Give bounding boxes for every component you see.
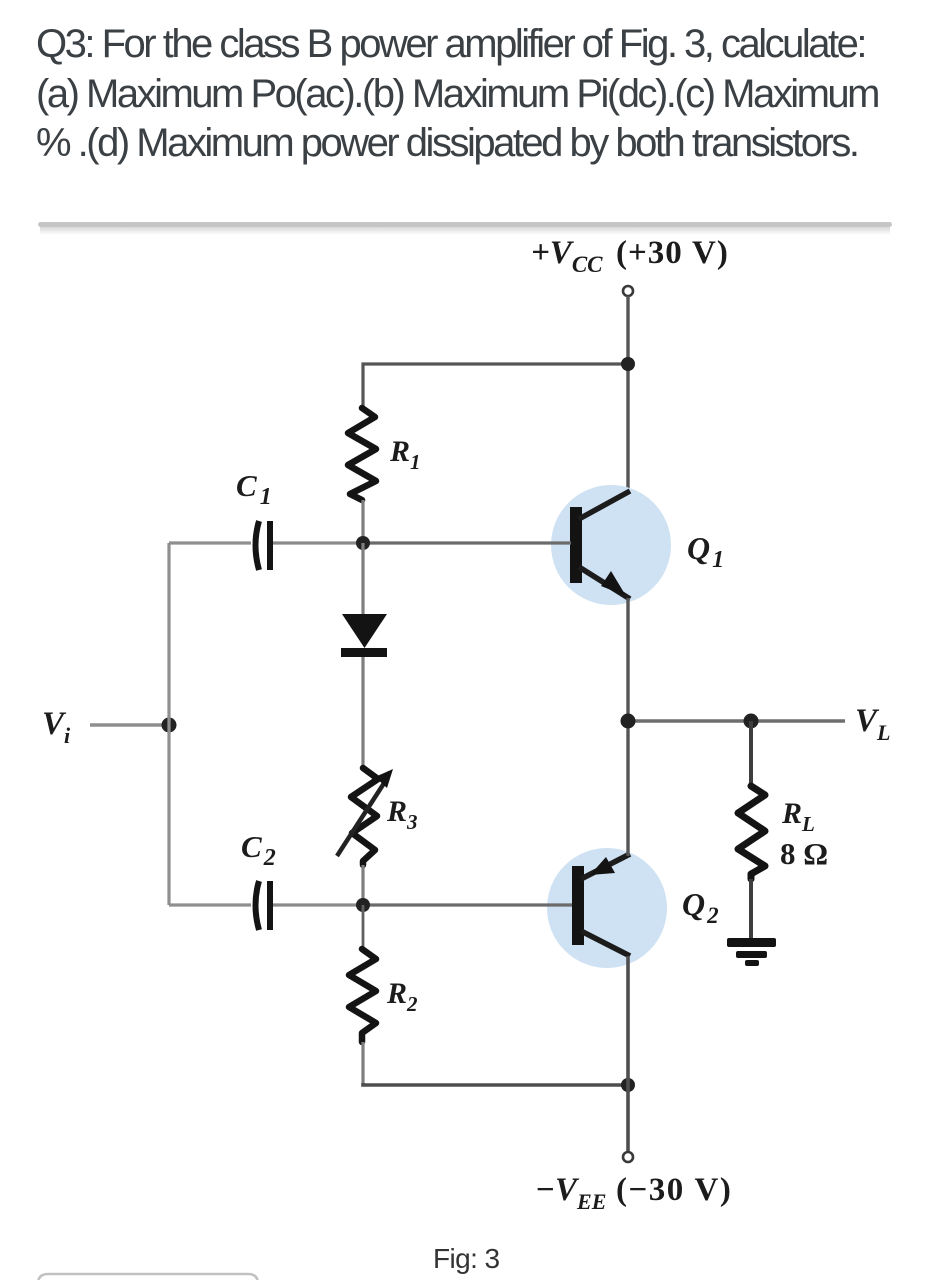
wire output node to Q2 emitter bbox=[626, 721, 629, 856]
svg-text:(+30 V): (+30 V) bbox=[616, 235, 729, 271]
wire C2 right to node bbox=[273, 903, 363, 906]
wire R2 to bottom rail bbox=[361, 1042, 364, 1083]
wire left loop vertical bbox=[167, 543, 170, 905]
wire R1 to base node bbox=[361, 500, 364, 543]
wire top rail bbox=[363, 364, 628, 408]
wire Q2 base bbox=[363, 903, 572, 906]
junction bottom rail bbox=[621, 1078, 635, 1092]
resistor RL 8ohm bbox=[738, 786, 765, 879]
wire C2 left bbox=[169, 903, 251, 906]
figure caption bbox=[433, 1243, 499, 1275]
wire Q1 base bbox=[363, 541, 571, 544]
wire node2 to R2 bbox=[362, 905, 365, 951]
svg-text:R1: R1 bbox=[389, 435, 421, 474]
svg-text:C1: C1 bbox=[236, 468, 272, 510]
svg-text:(−30 V): (−30 V) bbox=[616, 1172, 732, 1208]
svg-text:Q2: Q2 bbox=[682, 886, 719, 928]
wire bottom rail bbox=[363, 1083, 628, 1085]
wire Vcc vertical to Q1 collector bbox=[626, 296, 629, 492]
junction Vi / left loop bbox=[162, 718, 177, 733]
wire node to diode bbox=[361, 543, 364, 616]
resistor R1 bbox=[348, 408, 376, 500]
bottom card edge bbox=[38, 1274, 258, 1280]
wire C1 right to node bbox=[273, 541, 363, 544]
svg-text:8 Ω: 8 Ω bbox=[780, 836, 828, 871]
svg-text:Vi: Vi bbox=[42, 706, 71, 748]
node base1 junction bbox=[356, 536, 370, 550]
question text bbox=[36, 20, 878, 169]
transistor Q2 bbox=[547, 848, 667, 968]
resistor R2 bbox=[349, 949, 376, 1042]
junction RL tap bbox=[744, 714, 759, 729]
wire RL bottom bbox=[749, 879, 753, 941]
transistor Q1 bbox=[551, 485, 671, 605]
-Vee terminal bbox=[623, 1152, 633, 1162]
capacitor C2 bbox=[256, 881, 271, 930]
svg-text:C2: C2 bbox=[241, 829, 276, 871]
resistor R3 (variable) bbox=[337, 768, 393, 865]
wire output rail bbox=[628, 719, 845, 722]
junction top rail / Vcc bbox=[621, 357, 635, 371]
svg-text:VL: VL bbox=[855, 703, 890, 745]
svg-text:RL: RL bbox=[781, 797, 815, 836]
wire diode to R3 bbox=[361, 657, 364, 770]
wire RL top bbox=[749, 721, 753, 786]
wire Vi input bbox=[90, 723, 169, 727]
wire C1 left bbox=[169, 541, 251, 544]
junction output node bbox=[621, 714, 636, 729]
node base2 junction bbox=[356, 898, 370, 912]
Vcc terminal bbox=[623, 286, 633, 296]
separator bar bbox=[38, 222, 892, 235]
wire Q2 collector to -Vee terminal bbox=[626, 956, 630, 1151]
capacitor C1 bbox=[256, 521, 271, 570]
svg-text:Q1: Q1 bbox=[687, 530, 724, 573]
svg-text:+VCC: +VCC bbox=[531, 235, 603, 277]
diode D1 bbox=[341, 614, 387, 657]
wire Q1 emitter to output node bbox=[626, 598, 629, 721]
svg-text:−VEE: −VEE bbox=[535, 1172, 606, 1214]
label +Vcc (+30 V) bbox=[531, 235, 729, 277]
svg-text:R3: R3 bbox=[386, 795, 418, 834]
svg-text:R2: R2 bbox=[386, 977, 418, 1016]
wire R3 to node2 bbox=[361, 865, 364, 905]
label -Vee (-30 V) bbox=[535, 1172, 732, 1214]
ground bbox=[727, 938, 776, 966]
